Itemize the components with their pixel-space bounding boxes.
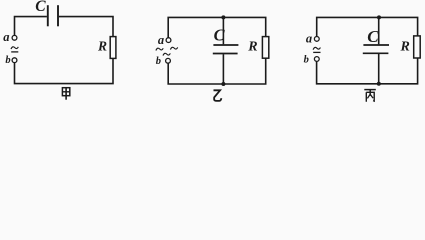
resistor R (circuit 乙) xyxy=(262,37,268,59)
wire: capacitor branch upper lead xyxy=(378,17,380,44)
terminal a (circuit 甲) xyxy=(12,35,17,40)
svg-text:b: b xyxy=(156,56,161,67)
wire: capacitor branch lower lead xyxy=(378,54,380,84)
terminal b (circuit 乙) xyxy=(166,58,171,63)
resistor R (circuit 甲) xyxy=(110,37,116,59)
wire: capacitor branch upper lead xyxy=(222,17,224,44)
wire: left vertical (top), top wire, right vertical to R xyxy=(168,17,266,37)
svg-text:R: R xyxy=(400,39,410,54)
wire: left vertical (top), top wire, right vertical to R xyxy=(317,17,418,36)
svg-text:b: b xyxy=(5,55,10,66)
svg-text:a: a xyxy=(158,33,164,47)
terminal a (circuit 乙) xyxy=(166,38,171,43)
junction dot bottom (circuit 丙) xyxy=(377,82,381,86)
terminal b (circuit 丙) xyxy=(314,57,319,62)
label 丙 xyxy=(364,90,376,102)
svg-text:a: a xyxy=(306,31,312,45)
capacitor C (circuit 丙) plates xyxy=(363,45,389,53)
AC source symbol ≃ (circuit 丙) xyxy=(313,47,320,52)
wire: right vertical below R, bottom wire, left vertical up to terminal b xyxy=(15,58,114,83)
label 乙 xyxy=(214,90,222,101)
wire: right vertical below R, bottom wire, left vertical up to terminal b xyxy=(168,58,266,84)
terminal a (circuit 丙) xyxy=(314,37,319,42)
svg-text:R: R xyxy=(97,38,107,53)
svg-text:a: a xyxy=(3,30,9,44)
svg-text:b: b xyxy=(304,54,309,65)
junction dot bottom (circuit 乙) xyxy=(221,82,225,86)
wire: left vertical (top) and top-left segment to capacitor xyxy=(15,17,47,36)
svg-text:C: C xyxy=(367,27,379,46)
wire: top-right segment from capacitor, right vertical down to R xyxy=(59,17,113,37)
wire: right vertical below R, bottom wire, left vertical up to terminal b xyxy=(317,58,418,84)
svg-text:R: R xyxy=(247,39,257,54)
terminal b (circuit 甲) xyxy=(12,58,17,63)
label 甲 xyxy=(62,88,69,100)
junction dot top (circuit 丙) xyxy=(377,15,381,19)
AC source symbol ≃ (circuit 甲) xyxy=(11,47,18,52)
svg-text:C: C xyxy=(35,0,46,15)
junction dot top (circuit 乙) xyxy=(221,15,225,19)
wire: capacitor branch lower lead xyxy=(222,54,224,84)
capacitor C (circuit 乙) plates xyxy=(213,45,239,54)
AC source symbol tildes (circuit 乙) xyxy=(156,47,178,55)
capacitor C (circuit 甲) plates xyxy=(48,5,58,26)
resistor R (circuit 丙) xyxy=(414,36,421,58)
svg-text:C: C xyxy=(214,25,226,44)
